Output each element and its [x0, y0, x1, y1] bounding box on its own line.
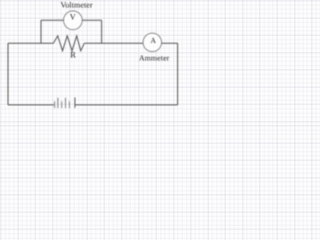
wire : voltmeter branch top-left horizontal — [41, 19, 64, 21]
battery cell plate long 3 — [74, 98, 76, 108]
wire : main horizontal right of resistor — [84, 42, 143, 44]
ammeter A1 circle — [143, 33, 162, 52]
wire : right vertical — [177, 43, 179, 105]
battery cell plate long 1 — [57, 98, 59, 108]
svg-text:Ammeter: Ammeter — [139, 54, 170, 63]
battery cell plate short 1 — [54, 101, 56, 108]
wire : left vertical — [7, 43, 9, 105]
wire : voltmeter branch right vertical — [101, 20, 103, 43]
battery cell plate long 2 — [65, 98, 67, 108]
resistor R — [53, 36, 84, 51]
svg-text:A: A — [150, 36, 156, 45]
wire : bottom right segment — [75, 104, 177, 106]
wire : voltmeter branch left vertical — [40, 20, 42, 43]
svg-text:R: R — [70, 51, 76, 60]
voltmeter circle — [64, 11, 83, 30]
svg-text:Voltmeter: Voltmeter — [61, 1, 93, 10]
svg-text:V: V — [70, 12, 77, 22]
wire : bottom left segment — [8, 104, 54, 106]
wire : main horizontal left segment — [8, 42, 53, 44]
wire : voltmeter branch top-right horizontal — [82, 19, 101, 21]
battery cell plate short 3 — [68, 101, 70, 108]
wire : ammeter to right corner — [162, 42, 178, 44]
battery cell plate short 2 — [61, 101, 63, 108]
